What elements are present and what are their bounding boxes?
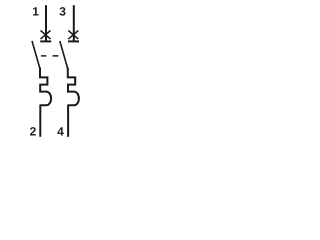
wire: pole1 top lead (pin 1) — [45, 5, 47, 41]
svg-text:1: 1 — [32, 4, 39, 18]
circuit-breaker function cross X (pole 2) — [68, 31, 78, 40]
wire: pole1 bottom lead (pin 2) — [39, 105, 41, 137]
pole 2 of 2-pole circuit breaker — [57, 4, 79, 138]
pole 1 of 2-pole circuit breaker — [30, 4, 52, 138]
fixed contact bar (pole 1) — [40, 40, 51, 42]
moving contact blade (pole 1) — [32, 41, 40, 69]
thermal overload release squiggle + magnetic release arc (pole 2) — [68, 68, 79, 106]
circuit-breaker function cross X (pole 1) — [41, 31, 51, 40]
svg-text:4: 4 — [57, 124, 64, 138]
moving contact blade (pole 2) — [60, 41, 68, 69]
wire: pole2 top lead (pin 3) — [73, 5, 75, 41]
svg-text:2: 2 — [30, 124, 37, 138]
fixed contact bar (pole 2) — [68, 40, 79, 42]
svg-text:3: 3 — [59, 4, 66, 18]
thermal overload release squiggle + magnetic release arc (pole 1) — [40, 68, 51, 106]
mechanical coupling dashed link — [41, 55, 58, 57]
wire: pole2 bottom lead (pin 4) — [67, 105, 69, 137]
